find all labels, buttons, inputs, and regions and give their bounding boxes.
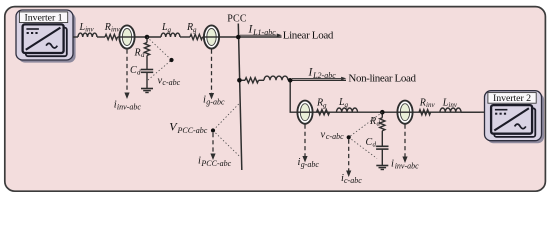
svg-text:R: R: [104, 22, 111, 33]
svg-text:c-abc: c-abc: [326, 132, 344, 141]
svg-text:Non-linear Load: Non-linear Load: [348, 73, 416, 85]
svg-text:L1-abc: L1-abc: [252, 28, 276, 37]
svg-text:inv: inv: [448, 101, 457, 109]
svg-text:PCC-abc: PCC-abc: [200, 159, 231, 168]
svg-text:inv-abc: inv-abc: [117, 102, 141, 111]
svg-text:inv-abc: inv-abc: [395, 161, 419, 170]
svg-text:g: g: [193, 26, 197, 34]
svg-text:d: d: [141, 51, 145, 59]
svg-text:g-abc: g-abc: [206, 98, 225, 107]
svg-text:R: R: [419, 98, 426, 109]
svg-text:d: d: [137, 69, 141, 77]
svg-text:g-abc: g-abc: [301, 160, 320, 169]
svg-text:v: v: [321, 130, 326, 141]
svg-text:c-abc: c-abc: [162, 78, 180, 87]
svg-text:g: g: [345, 101, 349, 109]
svg-text:PCC-abc: PCC-abc: [177, 126, 208, 135]
svg-text:PCC: PCC: [227, 14, 247, 25]
svg-text:i: i: [391, 159, 394, 170]
svg-text:R: R: [134, 48, 141, 59]
svg-text:R: R: [369, 116, 376, 127]
svg-text:c-abc: c-abc: [344, 176, 362, 185]
svg-text:Inverter 1: Inverter 1: [25, 12, 63, 23]
svg-text:inv: inv: [111, 25, 120, 33]
svg-text:L2-abc: L2-abc: [312, 71, 336, 80]
svg-text:Inverter 2: Inverter 2: [493, 93, 531, 104]
svg-text:d: d: [377, 120, 381, 128]
svg-text:Linear Load: Linear Load: [283, 30, 334, 42]
svg-text:g: g: [168, 26, 172, 34]
svg-text:C: C: [130, 65, 137, 76]
svg-text:C: C: [366, 137, 373, 148]
svg-text:inv: inv: [426, 101, 435, 109]
svg-text:d: d: [373, 141, 377, 149]
svg-text:g: g: [323, 101, 327, 109]
svg-text:inv: inv: [85, 25, 94, 33]
